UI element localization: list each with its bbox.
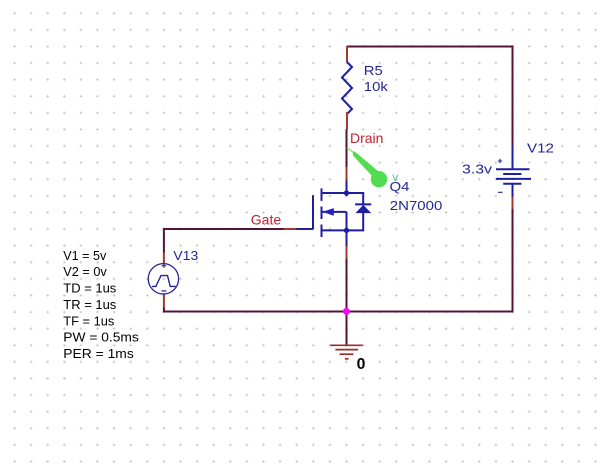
wire right upper (top wire down to V12 + pin) — [512, 46, 514, 146]
pin stub V12 minus — [512, 196, 514, 210]
svg-text:V2 = 0v: V2 = 0v — [63, 264, 107, 279]
voltage probe on drain — [347, 148, 387, 188]
wire drain (R5 bottom to Q4 drain) — [346, 129, 348, 167]
svg-text:TF = 1us: TF = 1us — [63, 313, 114, 328]
ground 0 — [330, 345, 362, 359]
svg-text:2N7000: 2N7000 — [390, 199, 443, 213]
pin stub Q4 source — [346, 246, 348, 260]
wire bottom (V13 to V12 along ground rail) — [164, 311, 514, 313]
wire top (R5 top to V12 top) — [347, 46, 513, 48]
wire V13 bottom lead — [163, 308, 165, 313]
svg-text:3.3v: 3.3v — [462, 162, 493, 176]
svg-text:PW = 0.5ms: PW = 0.5ms — [63, 330, 139, 345]
pin stub V13 minus — [163, 294, 165, 308]
svg-text:0: 0 — [357, 356, 366, 373]
wire gate horizontal — [163, 228, 284, 230]
battery V12 — [496, 145, 531, 197]
wire V13 top lead to gate corner — [163, 229, 165, 253]
junction node (ground rail) — [343, 308, 350, 315]
V13 parameter list — [63, 248, 139, 361]
pin stub Q4 gate — [283, 228, 297, 230]
svg-text:V13: V13 — [173, 249, 198, 263]
svg-text:V1 = 5v: V1 = 5v — [63, 248, 106, 263]
svg-text:V12: V12 — [527, 142, 554, 156]
svg-text:TD = 1us: TD = 1us — [63, 281, 116, 296]
svg-text:PER = 1ms: PER = 1ms — [63, 346, 134, 361]
Q4 source lead — [346, 230, 348, 246]
pin stub Q4 drain — [346, 167, 348, 182]
Q4 bulk arrow — [322, 208, 334, 216]
resistor R5 — [342, 47, 389, 130]
wire ground stub — [346, 312, 348, 346]
svg-text:10k: 10k — [364, 80, 389, 94]
Q4 body diode — [347, 193, 372, 230]
svg-text:TR = 1us: TR = 1us — [63, 297, 116, 312]
node dot source — [343, 227, 350, 234]
svg-text:Drain: Drain — [350, 130, 383, 146]
svg-text:R5: R5 — [364, 64, 383, 78]
svg-text:v: v — [392, 170, 398, 184]
svg-text:Gate: Gate — [251, 211, 282, 227]
wire source (Q4 source to ground rail) — [346, 259, 348, 312]
node dot drain — [343, 189, 350, 196]
wire right lower (V12 - pin down to bottom wire) — [512, 209, 514, 312]
pin stub V13 plus — [163, 252, 165, 264]
MOSFET Q4 (2N7000) — [297, 181, 347, 238]
pulse source V13 — [148, 264, 178, 294]
